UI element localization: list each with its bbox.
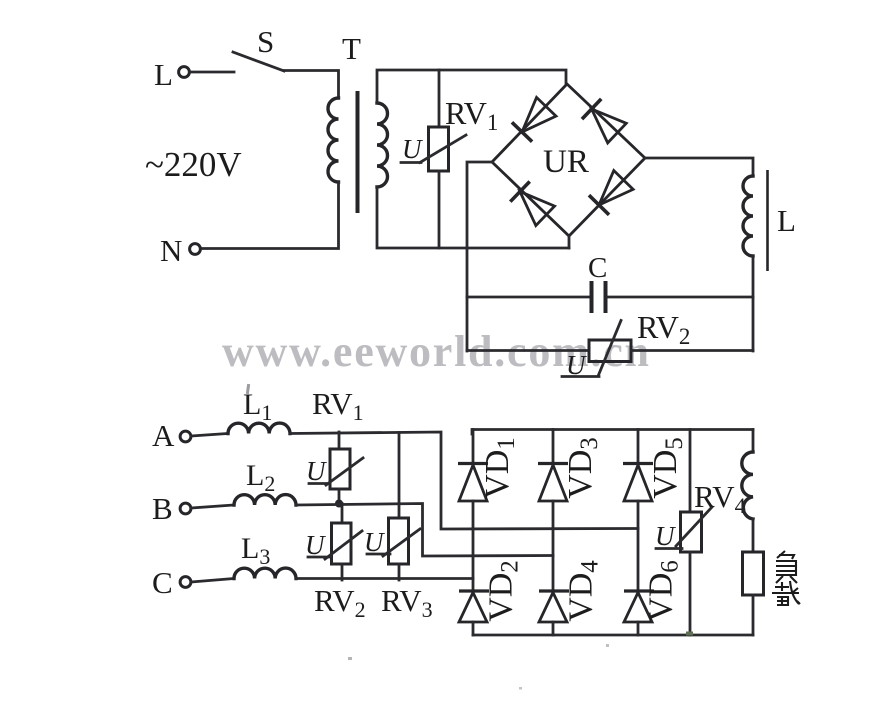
svg-text:U: U [566, 350, 587, 380]
bridge diode D-bottomright [589, 170, 633, 215]
wire bridge right vertex to inductor L [645, 158, 753, 176]
svg-text:L: L [154, 57, 173, 92]
varistor RV1 (top circuit) [401, 70, 466, 248]
svg-text:B: B [152, 491, 173, 526]
svg-text:U: U [305, 530, 326, 560]
wire L bottom down right column [752, 256, 755, 351]
diode VD2 [459, 560, 524, 635]
varistor RV3 [364, 433, 420, 581]
svg-text:U: U [364, 527, 385, 557]
bridge diode D-topleft [512, 97, 556, 142]
terminal B [152, 491, 191, 526]
junction node RV1/B-line [335, 500, 343, 508]
wire secondary bottom rail [377, 187, 569, 248]
wire primary bottom to N [201, 182, 339, 249]
inductor (right column filter) [742, 430, 753, 553]
terminal A [152, 418, 191, 453]
varistor RV2 (bottom) [305, 504, 362, 581]
svg-text:U: U [402, 134, 423, 164]
label 负载 (load) [772, 551, 800, 605]
diode VD3 [538, 430, 603, 592]
transformer T secondary winding [377, 103, 388, 187]
svg-text:N: N [160, 233, 182, 268]
wire switch to transformer [284, 71, 339, 99]
wire bridge top rail [472, 430, 753, 435]
wire bridge bottom vertex to bottom rail [568, 236, 571, 248]
diode VD1 [458, 430, 520, 592]
terminal N [160, 233, 200, 268]
switch S [233, 24, 284, 71]
capacitor C [467, 252, 753, 313]
svg-text:L: L [777, 203, 796, 238]
bridge diode D-topright [582, 99, 627, 143]
varistor RV1 (bottom) [306, 432, 363, 504]
transformer T primary winding [328, 98, 339, 182]
transformer T [328, 31, 388, 213]
terminal L [154, 57, 189, 92]
svg-text:UR: UR [543, 144, 589, 180]
diode VD6 [624, 560, 684, 635]
inductor L3 [191, 532, 296, 582]
wire bridge bottom rail [473, 634, 753, 637]
svg-text:U: U [655, 521, 676, 551]
bridge diode D-bottomleft [510, 182, 555, 226]
transformer T core [356, 91, 360, 213]
inductor L2 [191, 459, 296, 508]
svg-text:C: C [588, 252, 607, 284]
varistor RV4 [655, 430, 712, 636]
scan speck marks [246, 384, 693, 690]
terminal C [152, 565, 191, 600]
wire phase B line [296, 504, 553, 557]
wire phase A line [290, 432, 638, 529]
bridge rectifier UR diamond [492, 84, 645, 236]
diode VD5 [623, 430, 688, 592]
svg-text:T: T [342, 31, 361, 66]
wire phase C line [296, 577, 473, 580]
inductor L1 [191, 388, 290, 436]
svg-text:C: C [152, 565, 173, 600]
inductor L [743, 170, 796, 271]
svg-text:~220V: ~220V [145, 145, 242, 184]
wire L terminal to switch [190, 71, 234, 74]
load resistor 负载 [743, 552, 764, 635]
svg-text:U: U [306, 456, 327, 486]
wire bridge left vertex down to RV2 line [467, 162, 492, 351]
svg-text:S: S [257, 24, 274, 59]
wire secondary top rail [377, 70, 566, 103]
diode VD4 [539, 560, 604, 635]
varistor RV2 (top circuit) [467, 321, 753, 381]
svg-text:A: A [152, 418, 175, 453]
